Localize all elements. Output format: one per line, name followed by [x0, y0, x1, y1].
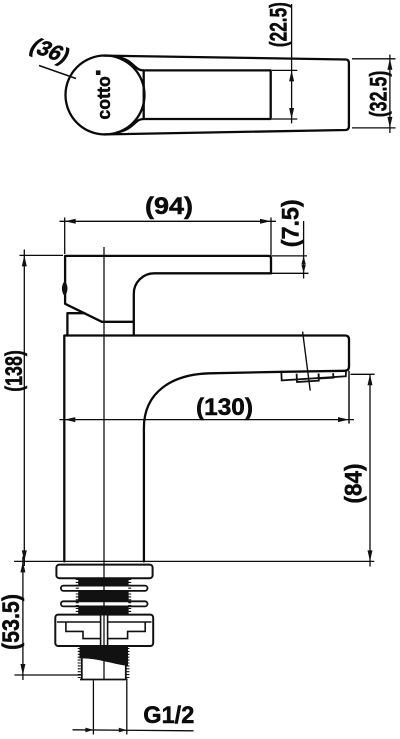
nut top plate line — [57, 621, 152, 623]
dim G1/2 extension right — [126, 681, 128, 735]
handle indicator lens — [62, 281, 68, 297]
svg-text:(22.5): (22.5) — [265, 2, 292, 47]
dim (84) line — [369, 374, 371, 566]
nut channel right — [108, 622, 146, 639]
nut channel left — [66, 622, 101, 639]
cotto logo text — [94, 70, 114, 119]
dim (7.5) line — [303, 221, 305, 279]
washer 1 — [61, 586, 148, 591]
dim (32.5) arrows — [387, 59, 392, 70]
dim (130) line — [60, 419, 355, 421]
faucet centreline — [103, 247, 105, 680]
pipe thread ticks — [76, 580, 131, 678]
dim (32.5) line — [389, 55, 391, 134]
svg-text:(94): (94) — [145, 193, 193, 220]
handle inner recess outline — [117, 57, 271, 133]
inner recess left edge — [143, 70, 145, 119]
base flange — [56, 565, 152, 579]
dim (138) line — [23, 250, 25, 567]
mounting nut outer — [55, 615, 153, 646]
threaded shank (black) — [78, 578, 128, 616]
handle head circle — [66, 56, 145, 135]
dim (7.5) extensions — [272, 255, 307, 257]
nut centre slot — [101, 616, 106, 646]
washer 2 — [61, 601, 148, 606]
dim (53.5) extension bottom — [15, 674, 82, 676]
dim (94) extension right — [270, 218, 272, 275]
dim (130) arrows — [64, 417, 75, 422]
dim (36) leader — [39, 66, 76, 79]
registered mark dot — [96, 70, 101, 75]
dim (22.5) line — [291, 4, 293, 123]
dim (94) line — [60, 220, 277, 222]
dim G1/2 extension left — [92, 681, 94, 735]
dim (130) extension right at spout tip — [348, 371, 350, 424]
svg-text:(130): (130) — [196, 394, 253, 421]
svg-text:(138): (138) — [1, 350, 28, 392]
body outline with spout — [64, 336, 349, 562]
svg-text:(32.5): (32.5) — [365, 71, 392, 118]
dim (53.5) line — [22, 557, 24, 681]
aerator inner box B — [319, 373, 334, 378]
dim (94) arrows — [65, 219, 76, 224]
svg-text:(84): (84) — [341, 464, 368, 504]
dim G1/2 arrows — [85, 728, 93, 733]
aerator outer — [281, 371, 346, 381]
svg-text:(53.5): (53.5) — [0, 594, 25, 650]
dim (84) arrows — [368, 374, 373, 385]
handle outer silhouette top edge — [104, 56, 349, 135]
lever stem — [133, 322, 135, 336]
dim (32.5) extension lines — [352, 55, 396, 134]
pipe break swoosh — [80, 645, 129, 666]
dim G1/2 line with leader — [73, 730, 194, 731]
dim (7.5) arrows — [301, 256, 305, 265]
aerator inner box A — [297, 374, 319, 383]
svg-text:cotto: cotto — [94, 76, 114, 120]
dim (53.5) arrows — [20, 561, 25, 572]
svg-text:(7.5): (7.5) — [278, 199, 305, 247]
dim (138) arrows — [22, 255, 27, 266]
dim (22.5) arrows — [289, 70, 294, 81]
dim (94) extension left — [64, 218, 66, 255]
svg-text:G1/2: G1/2 — [143, 702, 194, 729]
threaded tail pipe — [80, 652, 128, 680]
mounting surface line — [14, 560, 374, 562]
aerator axis line — [303, 332, 311, 391]
dim (22.5) extension lines — [272, 4, 297, 123]
dim (84) extension top — [351, 373, 375, 375]
lever handle outline — [65, 256, 271, 322]
dim (138) extension top — [20, 254, 64, 256]
lever pedestal — [67, 313, 84, 335]
